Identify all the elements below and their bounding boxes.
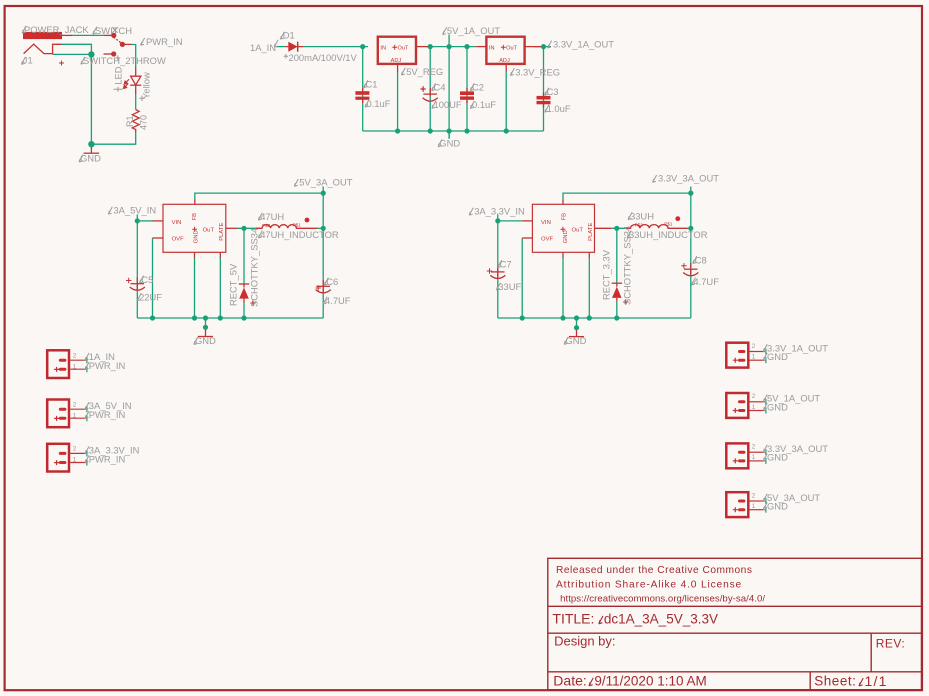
svg-text:https://creativecommons.org/li: https://creativecommons.org/licenses/by-… [560,593,765,604]
svg-text:2: 2 [73,401,77,408]
svg-text:2: 2 [752,444,756,451]
svg-text:GND: GND [194,230,200,243]
svg-text:GND: GND [439,138,460,149]
svg-text:SWITCH_2THROW: SWITCH_2THROW [83,55,166,66]
svg-text:IN: IN [380,46,386,52]
svg-text:GND: GND [563,230,569,243]
svg-text:Design by:: Design by: [554,634,615,649]
svg-text:FB: FB [192,213,198,221]
svg-text:GND: GND [767,452,788,463]
svg-text:33UF: 33UF [498,281,521,292]
svg-text:100UF: 100UF [434,99,462,110]
svg-text:OuT: OuT [203,227,215,233]
svg-text:1: 1 [752,404,756,411]
svg-text:9/11/2020 1:10 AM: 9/11/2020 1:10 AM [594,674,706,689]
svg-text:1: 1 [73,363,77,370]
svg-text:Yellow: Yellow [140,72,151,99]
svg-text:Sheet:: Sheet: [814,674,856,689]
svg-text:470: 470 [139,115,149,130]
svg-text:47UH_INDUCTOR: 47UH_INDUCTOR [260,229,339,240]
svg-text:OVF: OVF [172,237,185,243]
svg-text:2: 2 [752,393,756,400]
svg-text:IN: IN [489,46,495,52]
svg-text:GND: GND [767,351,788,362]
svg-text:2: 2 [73,446,77,453]
svg-text:RECT_5V: RECT_5V [227,263,238,306]
svg-text:VIN: VIN [541,220,551,226]
svg-text:200mA/100V/1V: 200mA/100V/1V [289,52,358,63]
svg-text:GND: GND [767,501,788,512]
svg-text:ADJ: ADJ [391,58,402,64]
svg-text:P$2: P$2 [635,222,644,227]
svg-text:P$1: P$1 [664,222,673,227]
svg-text:C1: C1 [366,79,378,90]
svg-text:LED: LED [113,66,124,84]
svg-text:5V_REG: 5V_REG [406,66,443,77]
svg-text:1A_IN: 1A_IN [250,42,276,53]
svg-text:GND: GND [767,401,788,412]
svg-text:1: 1 [752,503,756,510]
svg-text:22UF: 22UF [139,292,162,303]
svg-text:1/1: 1/1 [865,673,888,689]
svg-text:P$2: P$2 [262,223,271,228]
svg-text:1: 1 [73,412,77,419]
svg-text:FB: FB [561,213,567,221]
svg-text:PLATE: PLATE [219,223,225,241]
svg-text:5V_1A_OUT: 5V_1A_OUT [447,25,500,36]
svg-text:2: 2 [752,492,756,499]
svg-text:4.7UF: 4.7UF [693,276,719,287]
svg-text:PWR_IN: PWR_IN [89,360,125,371]
svg-text:2: 2 [752,343,756,350]
svg-text:GND: GND [566,335,587,346]
svg-text:PWR_IN: PWR_IN [146,36,182,47]
svg-text:SWITCH: SWITCH [95,25,132,36]
svg-text:P$1: P$1 [293,222,302,227]
svg-text:SCHOTTKY_SS34: SCHOTTKY_SS34 [248,228,259,307]
svg-text:1.0uF: 1.0uF [547,103,571,114]
svg-text:VIN: VIN [172,220,182,226]
svg-text:Date:: Date: [553,673,586,689]
svg-text:GND: GND [195,335,216,346]
svg-text:POWER_JACK: POWER_JACK [24,24,89,35]
svg-text:RECT_3.3V: RECT_3.3V [601,249,612,300]
svg-text:4.7UF: 4.7UF [325,295,351,306]
svg-text:2: 2 [73,352,77,359]
svg-text:47UH: 47UH [260,211,284,222]
svg-text:3A_5V_IN: 3A_5V_IN [113,205,156,216]
svg-text:R1: R1 [125,115,135,127]
svg-text:Released under the Creative Co: Released under the Creative Commons [556,565,752,576]
svg-text:3.3V_1A_OUT: 3.3V_1A_OUT [553,38,614,49]
svg-text:OuT: OuT [506,46,517,52]
svg-text:0.1uF: 0.1uF [472,99,496,110]
svg-text:TITLE:: TITLE: [552,611,594,627]
svg-text:0.1uF: 0.1uF [367,98,391,109]
svg-text:ADJ: ADJ [499,58,510,64]
svg-text:33UH_INDUCTOR: 33UH_INDUCTOR [629,229,708,240]
svg-text:1: 1 [752,454,756,461]
svg-text:3A_3.3V_IN: 3A_3.3V_IN [474,206,525,217]
svg-text:PLATE: PLATE [588,223,594,241]
svg-text:PWR_IN: PWR_IN [89,454,125,465]
svg-text:Attribution Share-Alike 4.0 Li: Attribution Share-Alike 4.0 License [556,580,742,591]
svg-text:PWR_IN: PWR_IN [89,409,125,420]
svg-text:5V_3A_OUT: 5V_3A_OUT [299,177,352,188]
svg-text:REV:: REV: [876,636,906,650]
svg-text:D1: D1 [283,30,295,41]
svg-text:OVF: OVF [541,237,554,243]
svg-text:3.3V_REG: 3.3V_REG [515,66,560,77]
svg-text:1: 1 [752,354,756,361]
svg-text:3.3V_3A_OUT: 3.3V_3A_OUT [658,173,719,184]
svg-text:33UH: 33UH [630,211,654,222]
svg-text:dc1A_3A_5V_3.3V: dc1A_3A_5V_3.3V [604,612,718,627]
svg-text:GND: GND [80,152,101,163]
svg-text:1: 1 [73,457,77,464]
svg-text:OuT: OuT [572,227,584,233]
svg-text:OuT: OuT [398,46,409,52]
